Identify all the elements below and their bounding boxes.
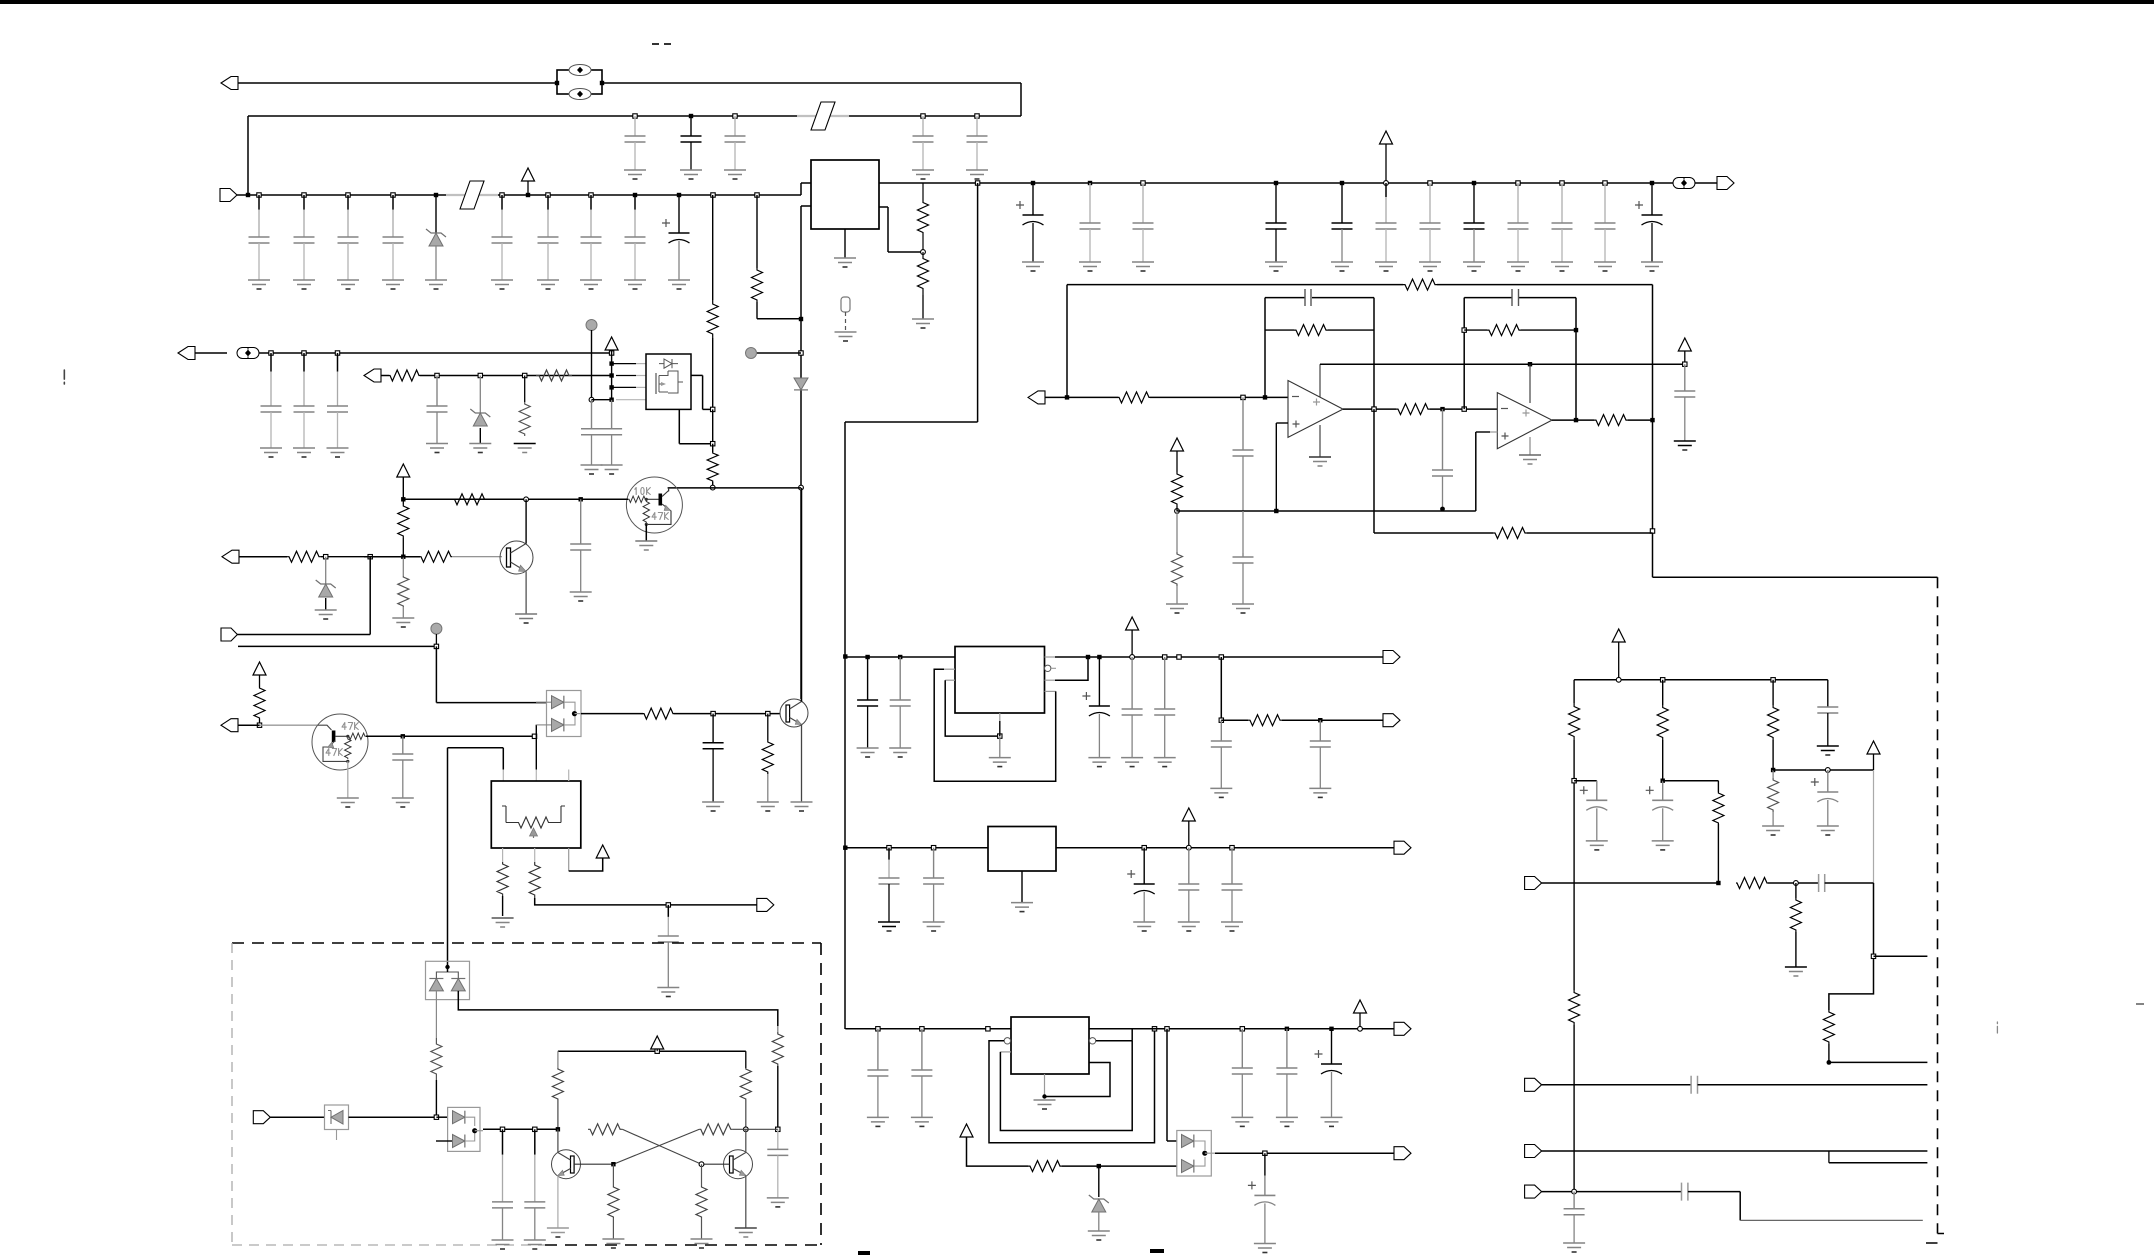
junction: [1716, 881, 1720, 885]
regulator U1: [811, 160, 879, 229]
wire sense branch: [1220, 657, 1222, 720]
transistor Q5 (NPN): [780, 699, 808, 727]
wire to diode: [1167, 1029, 1177, 1141]
wire: [801, 183, 811, 195]
wire: [591, 330, 593, 400]
capacitor C55 (electrolytic): [1646, 781, 1674, 850]
junction: [1472, 181, 1476, 185]
junction: [799, 351, 803, 355]
resistor R33: [1785, 883, 1807, 976]
resistor R39 QR load: [740, 1051, 751, 1129]
ff top line: [777, 1022, 779, 1026]
zener D1 (TVS): [425, 195, 447, 289]
capacitor C38 (electrolytic): [1082, 657, 1110, 767]
junction: [799, 317, 803, 321]
connector J10: [1028, 391, 1118, 404]
capacitor C30: [702, 714, 724, 811]
wire pot pin3: [569, 848, 603, 871]
junction: [743, 1127, 748, 1132]
regulator U5: [988, 827, 1056, 872]
junction: [1794, 881, 1799, 886]
resistor R20: [1403, 279, 1653, 290]
transistor Q6 (NPN, mirrored): [552, 1150, 614, 1179]
resistor R2: [918, 252, 929, 319]
junction: [1560, 181, 1564, 185]
junction: [876, 1027, 880, 1031]
wire: [436, 646, 546, 702]
capacitor C39: [1121, 657, 1143, 767]
connector J1 (top left, IO): [221, 77, 556, 90]
junction: [710, 485, 715, 490]
resistor R41: [691, 1164, 713, 1248]
resistor R6: [707, 195, 718, 409]
power arrow: [1354, 1000, 1367, 1029]
connector J12: [1383, 714, 1400, 727]
diode D10b: [436, 1133, 475, 1148]
junction: [1428, 181, 1432, 185]
wire Q2 collector: [668, 488, 670, 492]
capacitor C48: [867, 1029, 889, 1127]
wire U1 left lower pin: [801, 206, 811, 699]
dual diode D5 box: [547, 691, 582, 737]
capacitor C54 (electrolytic): [1580, 781, 1608, 850]
junction: [609, 385, 613, 389]
capacitor C26: [581, 400, 603, 474]
dual diode D10 box: [448, 1107, 480, 1151]
junction: [434, 644, 438, 648]
junction: [921, 114, 925, 118]
wire Q4 emitter gnd: [347, 761, 349, 798]
capacitor C2: [680, 116, 702, 179]
junction: [633, 193, 637, 197]
junction: [1285, 1027, 1289, 1031]
resistor R7: [707, 444, 718, 488]
junction: [257, 723, 261, 727]
capacitor C6: [537, 195, 559, 289]
wire: [535, 725, 537, 781]
wire U4 inner loop: [945, 680, 997, 736]
junction: [1274, 509, 1278, 513]
capacitor C20: [1594, 183, 1616, 271]
wire Q3 collector: [525, 499, 527, 543]
gate stubs: [612, 364, 646, 400]
connector J4: [178, 347, 227, 360]
resistor R35: [1569, 990, 1580, 1192]
resistor R27 bias col: [1569, 680, 1580, 990]
junction: [1097, 1164, 1101, 1168]
junction: [611, 1162, 615, 1166]
wire U2 gnd: [1309, 425, 1331, 466]
junction: [1683, 362, 1687, 366]
bus entry slash: [797, 102, 849, 130]
wire U4 gnd pin: [989, 713, 1011, 767]
junction: [1650, 181, 1654, 185]
junction: [1142, 846, 1146, 850]
junction: [572, 711, 577, 716]
lower fb line: [1374, 409, 1653, 538]
resistor R23: [1172, 472, 1183, 511]
connector J5: [364, 369, 389, 382]
junction: [1241, 395, 1245, 399]
junction: [711, 442, 715, 446]
gray dot TP: [586, 320, 597, 331]
capacitor C4: [382, 195, 404, 289]
text i: [1996, 1022, 1998, 1033]
wire D10 out: [475, 1129, 558, 1130]
power arrow VCC: [522, 168, 535, 197]
resistor R25: [1221, 715, 1383, 726]
op-amp U3: [1497, 393, 1552, 449]
dual diode D7 box: [1177, 1131, 1212, 1177]
junction: [478, 373, 482, 377]
diode D7b: [1182, 1157, 1206, 1173]
capacitor C8: [624, 195, 646, 289]
capacitor C44: [923, 848, 945, 931]
resistor R26: [1028, 1161, 1177, 1172]
resistor R34: [1823, 1010, 1834, 1062]
ground: [635, 541, 657, 550]
junction: [975, 114, 979, 118]
junction: [269, 351, 273, 355]
junction: [500, 1127, 504, 1131]
junction: [335, 351, 339, 355]
junction: [666, 903, 670, 907]
junction: [1650, 529, 1654, 533]
testpoint TP1: [1652, 178, 1717, 189]
dashed box: [232, 943, 821, 1245]
resistor R13: [420, 551, 502, 562]
wire U3 gnd: [1519, 437, 1541, 464]
ground: [515, 614, 537, 623]
junction: [609, 398, 613, 402]
resistor R40: [602, 1164, 624, 1248]
capacitor C1: [248, 195, 270, 289]
junction: [609, 351, 613, 355]
wire U4 out: [1045, 656, 1384, 658]
junction: [776, 1127, 780, 1131]
resistor R8: [752, 195, 802, 319]
power arrow: [1182, 808, 1195, 848]
ferrite bead FB1: [555, 65, 604, 100]
junction: [931, 846, 935, 850]
connector J6: [222, 550, 287, 563]
capacitor C13: [1265, 183, 1287, 271]
capacitor C43: [878, 848, 900, 931]
resistor R18 pot leg2: [529, 848, 757, 905]
wire audio net: [1829, 883, 1874, 1010]
capacitor C3: [337, 195, 359, 289]
wire Q2 emitter gnd: [645, 524, 647, 541]
capacitor C7: [580, 195, 602, 289]
junction line B: [1528, 362, 1532, 366]
capacitor C53 (electrolytic): [1248, 1153, 1276, 1252]
power arrow: [605, 337, 618, 400]
digital transistor Q2: [626, 477, 682, 533]
connector J2 (power in): [220, 189, 801, 202]
junction: [1318, 718, 1322, 722]
power arrow: [596, 845, 609, 858]
junction: [257, 193, 261, 197]
connector J11: [1383, 651, 1400, 664]
wire top loop: [248, 83, 1021, 195]
U6 right bubble: [1089, 1029, 1132, 1044]
resistor R14: [254, 687, 265, 725]
power arrow: [651, 1036, 664, 1053]
wire U3 out: [1552, 419, 1594, 421]
wire U5 out: [1056, 847, 1394, 849]
resistor R24: [1166, 511, 1188, 613]
wire: [403, 498, 628, 500]
junction: [609, 361, 613, 365]
wire Q6 collector: [557, 1129, 559, 1152]
capacitor C31: [657, 905, 679, 997]
capacitor C45 (electrolytic): [1127, 848, 1155, 931]
wire main rail down: [845, 183, 978, 1029]
connector J3 (power out): [1717, 177, 1734, 190]
capacitor C9 (electrolytic): [662, 195, 690, 289]
wire U6 gnd loop: [1034, 1063, 1111, 1110]
wire U4 outer loop: [934, 669, 1055, 781]
ground: [791, 802, 813, 811]
junction: [579, 497, 583, 501]
opamp V+ line B: [1292, 364, 1685, 427]
wire tvs right anode: [458, 991, 778, 1022]
connector J20: [253, 1111, 324, 1124]
potentiometer RV1 box: [491, 781, 581, 848]
resistor R30: [1768, 680, 1779, 770]
resistor R37: [772, 1026, 783, 1129]
junction: [1186, 845, 1191, 850]
resistor R31: [1762, 770, 1784, 835]
resistor R3: [389, 370, 612, 381]
resistor R17 pot leg1: [492, 848, 514, 927]
ff cross couple: [613, 1129, 701, 1164]
capacitor C56: [1817, 680, 1839, 755]
junction: [1358, 1026, 1363, 1031]
junction: [975, 181, 979, 185]
capacitor C21 (electrolytic): [1635, 183, 1663, 271]
ground: [912, 319, 934, 328]
junction: [755, 193, 759, 197]
bottom tick: [1150, 1249, 1164, 1253]
bus right of U1: [879, 182, 1652, 184]
connector J15: [1394, 1147, 1411, 1160]
zener D4 (gray): [315, 557, 337, 619]
junction: [434, 1115, 438, 1119]
capacitor C50: [1231, 1029, 1253, 1127]
capacitor C15: [1375, 183, 1397, 271]
capacitor C47: [1221, 848, 1243, 931]
junction: [711, 407, 715, 411]
junction: [1065, 395, 1069, 399]
junction: [1202, 1151, 1207, 1156]
power arrow: [1126, 617, 1139, 657]
wire U6 out: [1089, 1028, 1394, 1030]
wire tvs left anode: [435, 991, 437, 1038]
junction: [1340, 181, 1344, 185]
capacitor C59: [1563, 1192, 1585, 1252]
capacitor C11: [1079, 183, 1101, 271]
junction: [1771, 768, 1775, 772]
wire: [436, 1116, 447, 1118]
resistor R22: [1594, 415, 1653, 426]
junction: [733, 114, 737, 118]
resistor R11: [398, 557, 409, 618]
transistor Q7 (NPN): [702, 1150, 753, 1179]
junction: [1263, 395, 1267, 399]
connector J9: [757, 898, 774, 911]
junction: [302, 351, 306, 355]
resistor R5: [536, 370, 572, 381]
wire row2: [238, 645, 436, 647]
power arrow: [960, 1124, 1028, 1166]
junction: [1603, 181, 1607, 185]
diode D10a: [453, 1111, 475, 1126]
power arrow: [397, 464, 410, 499]
wire U6 inner loop: [1000, 1041, 1132, 1131]
zener D3 (gray): [469, 376, 491, 453]
op-amp U2: [1288, 381, 1343, 438]
capacitor C1: [624, 116, 646, 179]
junction: [1274, 181, 1278, 185]
junction: [302, 193, 306, 197]
capacitor C25: [426, 376, 448, 453]
ground: [392, 618, 414, 627]
wire Q5 emitter: [801, 725, 803, 803]
digital transistor Q4: [312, 714, 368, 770]
capacitor C58 series: [1819, 874, 1874, 892]
junction: [1219, 718, 1223, 722]
resistor R10: [398, 499, 409, 556]
U6 left bubble: [1004, 1038, 1010, 1044]
wire Q3 emitter: [525, 572, 527, 615]
wire U4 pin2 loop: [1045, 657, 1089, 680]
junction: [677, 193, 681, 197]
diode D2 (gray): [794, 378, 808, 390]
regulator U4: [955, 647, 1045, 714]
capacitor C19: [1551, 183, 1573, 271]
capacitor C62: [524, 1129, 546, 1249]
junction: [1086, 655, 1090, 659]
bottom tick2: [858, 1251, 870, 1255]
junction: [324, 555, 328, 559]
resistor R19: [1118, 392, 1288, 403]
junction: [799, 485, 804, 490]
junction: [1616, 677, 1621, 682]
diode D9 box (gray): [325, 1105, 349, 1140]
junction: [1827, 1060, 1832, 1065]
junction: [435, 373, 439, 377]
resistor R29: [1713, 781, 1724, 883]
power arrow: [1678, 338, 1691, 364]
wire col 1652: [1653, 285, 1931, 578]
capacitor C42: [1309, 720, 1331, 797]
wire collector net: [668, 487, 801, 489]
junction: [533, 1127, 537, 1131]
junction: [711, 711, 715, 715]
feedback loop 2: [1462, 289, 1578, 420]
resistor R15: [643, 708, 780, 719]
wire reg3 input: [845, 1028, 1011, 1030]
capacitor C32: [1233, 397, 1254, 511]
junction: [1152, 1027, 1156, 1031]
ground: [834, 258, 856, 267]
capacitor C5: [966, 116, 988, 179]
connector J17: [1525, 1076, 1928, 1094]
junction: [1650, 418, 1654, 422]
wire Q1 source: [679, 409, 712, 443]
resistor R4: [514, 376, 536, 453]
capacitor C4: [912, 116, 934, 179]
resistor R12: [287, 551, 364, 562]
capacitor C49: [911, 1029, 933, 1127]
capacitor C35: [1232, 511, 1254, 613]
junction: [1572, 1189, 1577, 1194]
capacitor C57 (electrolytic): [1811, 770, 1839, 835]
junction: [1263, 1151, 1267, 1155]
junction: [1462, 407, 1466, 411]
tvs box D8: [426, 961, 470, 999]
junction: [401, 555, 405, 559]
wire Q1 drain: [691, 375, 713, 409]
mosfet Q1 internals: [656, 359, 683, 394]
junction: [524, 497, 529, 502]
capacitor C22: [260, 353, 282, 457]
junction: [368, 555, 372, 559]
junction: [1163, 655, 1167, 659]
junction: [898, 655, 902, 659]
junction: [633, 114, 637, 118]
connector J8: [221, 719, 318, 732]
junction: [589, 193, 593, 197]
diode D5b: [536, 716, 575, 731]
feedback loop 1: [1265, 289, 1374, 409]
mic mid line: [1773, 769, 1873, 771]
gray dot TP: [746, 348, 802, 359]
junction: [391, 193, 395, 197]
junction: [921, 250, 926, 255]
wire reg1 input: [845, 656, 955, 658]
resistor R32: [1736, 878, 1818, 889]
capacitor C60 series: [1682, 1183, 1923, 1221]
resistor R28: [1657, 680, 1668, 781]
junction: [401, 497, 405, 501]
junction: [689, 114, 693, 118]
junction: [346, 193, 350, 197]
wire U6 outer loop: [989, 1029, 1155, 1143]
junction: [1440, 407, 1444, 411]
wire U1 right lower pin: [879, 207, 923, 252]
dashed boundary: [1926, 577, 1944, 1243]
potentiometer RV1: [502, 770, 569, 839]
capacitor C41: [1210, 720, 1232, 797]
mosfet Q1 box: [646, 354, 691, 409]
power arrow: [1867, 741, 1880, 770]
testpoint TP2: [237, 348, 612, 359]
zener D6 (gray): [1088, 1166, 1110, 1240]
connector J19: [1525, 1185, 1682, 1198]
junction: [246, 193, 250, 197]
U4 bubble pin: [1045, 665, 1057, 671]
capacitor C23: [293, 353, 315, 457]
power arrow: [1612, 629, 1625, 680]
junction: [699, 1162, 704, 1167]
junction: [1372, 407, 1376, 411]
wire Q7 collector: [745, 1129, 747, 1152]
junction: [546, 193, 550, 197]
junction: [1240, 1027, 1244, 1031]
junction: [711, 193, 715, 197]
